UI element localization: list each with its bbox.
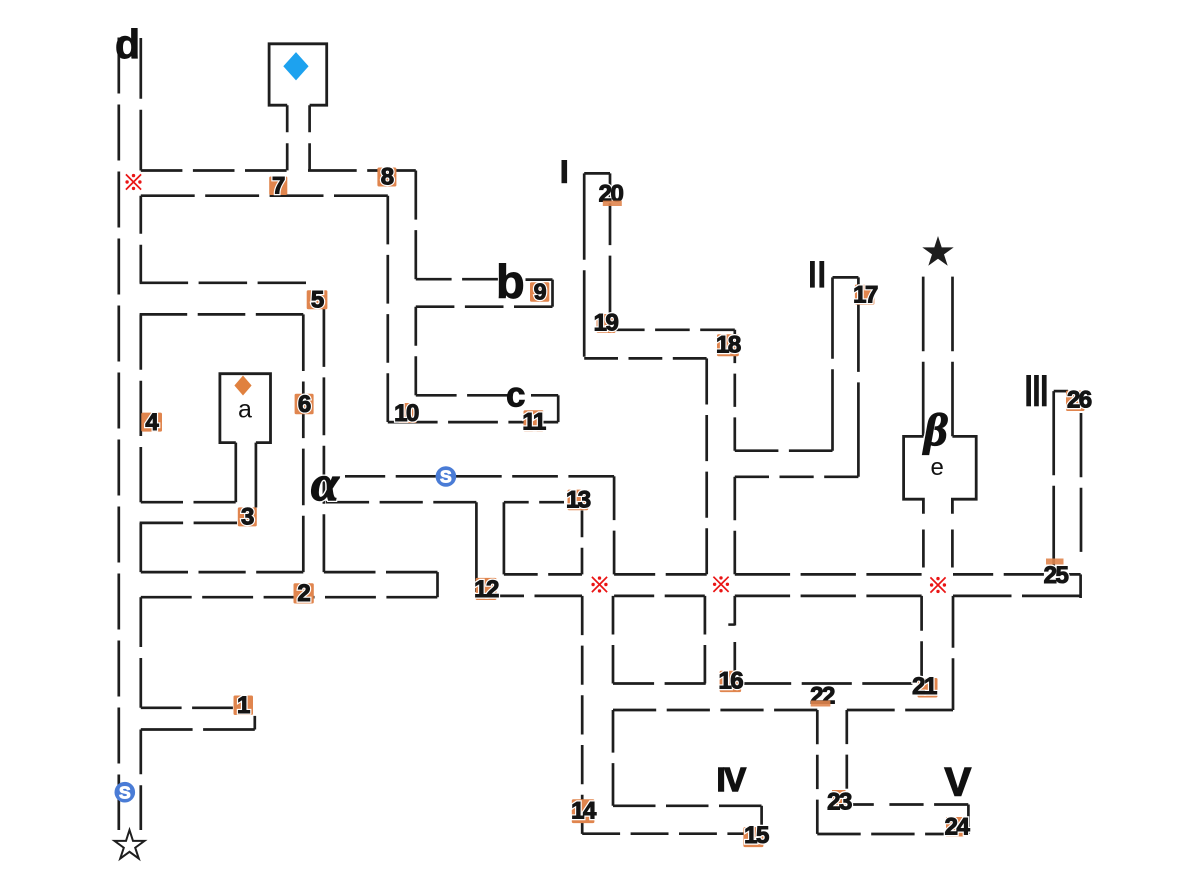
svg-text:5: 5 xyxy=(311,287,324,314)
long corridor east cap xyxy=(1079,574,1082,598)
svg-text:V: V xyxy=(945,761,972,805)
orange diamond item xyxy=(234,376,251,396)
door 24 xyxy=(945,814,971,841)
corridor V east cap xyxy=(967,805,970,835)
svg-text:13: 13 xyxy=(566,487,591,514)
corridor IV east cap xyxy=(760,806,763,834)
svg-text:11: 11 xyxy=(522,409,546,436)
corridor V bottom wall xyxy=(817,833,968,836)
door 4 xyxy=(141,409,162,436)
door 20 xyxy=(599,181,624,208)
room e (beta) xyxy=(904,436,924,513)
row-3 corridor bottom wall xyxy=(140,522,237,525)
row-5 corridor top wall xyxy=(140,281,306,284)
corridor IV bottom wall xyxy=(582,832,765,835)
svg-text:IV: IV xyxy=(717,761,747,798)
corridor II west wall xyxy=(831,277,834,450)
svg-text:8: 8 xyxy=(381,164,394,191)
corridor-1 top wall xyxy=(141,706,233,709)
corridor-6 east wall xyxy=(323,309,326,572)
door 11 xyxy=(522,409,546,436)
label III xyxy=(1026,375,1046,406)
svg-text:1: 1 xyxy=(237,692,250,719)
star corridor east wall xyxy=(951,277,954,437)
corridor-16 top wall xyxy=(613,682,706,685)
svg-text:7: 7 xyxy=(272,173,285,200)
door 21 xyxy=(912,673,937,700)
svg-text:2: 2 xyxy=(297,580,310,607)
door 3 xyxy=(238,504,257,531)
svg-text:23: 23 xyxy=(827,789,852,816)
corridor-6 west wall xyxy=(302,314,305,572)
door 10 xyxy=(394,400,419,427)
row-7 corridor bottom wall xyxy=(141,194,388,197)
svg-text:α: α xyxy=(311,455,340,511)
svg-text:18: 18 xyxy=(716,332,741,359)
corridor-12 west wall xyxy=(475,502,478,592)
row-5 corridor bottom wall xyxy=(140,313,304,316)
svg-text:17: 17 xyxy=(853,282,878,309)
svg-text:b: b xyxy=(496,255,525,308)
blue diamond item xyxy=(283,52,308,80)
svg-text:6: 6 xyxy=(298,391,311,418)
door 17 xyxy=(853,282,878,309)
door 12 xyxy=(474,576,499,603)
corridor b bottom wall xyxy=(416,305,553,308)
secret mark west xyxy=(125,174,141,190)
white star (start) xyxy=(115,830,145,859)
corridor II east wall xyxy=(857,277,860,476)
label II xyxy=(810,261,824,288)
svg-text:9: 9 xyxy=(534,279,546,305)
corridor c bottom wall xyxy=(388,421,558,424)
corridor-1 end wall xyxy=(253,716,256,730)
door 13 xyxy=(566,487,591,514)
corridor III east wall xyxy=(1080,413,1083,552)
star corridor west wall xyxy=(922,277,925,437)
corridor-12 east wall xyxy=(503,502,506,574)
secret mark east xyxy=(930,577,946,593)
svg-text:14: 14 xyxy=(571,798,597,825)
corridor c top wall xyxy=(416,394,508,397)
label alpha xyxy=(311,455,340,511)
label I xyxy=(562,160,568,183)
door 19 xyxy=(594,310,619,337)
corridor V top wall xyxy=(852,803,874,806)
svg-text:26: 26 xyxy=(1067,387,1092,414)
door 2 xyxy=(294,580,314,607)
row-7 corridor top wall xyxy=(141,169,287,172)
door 18 xyxy=(716,332,741,359)
door 26 xyxy=(1066,387,1092,414)
S marker alpha corridor xyxy=(436,466,457,487)
corridor-13 west wall xyxy=(581,511,584,575)
door 1 xyxy=(234,692,254,719)
corridor-18 east wall xyxy=(733,330,736,451)
svg-text:e: e xyxy=(931,454,944,481)
door 14 xyxy=(571,798,597,825)
wall jog xyxy=(728,623,735,626)
room with blue diamond xyxy=(269,44,327,105)
corridor-23 east wall xyxy=(845,710,848,789)
corridor III cap xyxy=(1054,390,1068,393)
door 8 xyxy=(377,164,396,191)
corridor IV top wall xyxy=(613,804,762,807)
corridor-14 east wall xyxy=(612,596,615,684)
door 23 xyxy=(827,789,852,816)
secret mark center-1 xyxy=(591,576,607,592)
row-2 corridor bottom wall xyxy=(141,596,438,599)
corridor c end wall xyxy=(557,395,560,422)
corridor I east wall xyxy=(609,173,612,327)
corridor-14 west wall xyxy=(581,596,584,834)
alpha corridor bottom wall xyxy=(326,501,477,504)
svg-text:d: d xyxy=(115,21,140,67)
corridor-18 lower west wall xyxy=(704,596,707,684)
diamond-room corridor walls xyxy=(286,105,289,170)
svg-text:S: S xyxy=(119,782,131,802)
corridor-1 bottom wall xyxy=(141,728,255,731)
svg-text:S: S xyxy=(440,467,452,487)
corridor b top wall xyxy=(416,278,498,281)
room 9 end wall xyxy=(551,280,554,307)
corridor II cap xyxy=(833,276,859,279)
svg-text:4: 4 xyxy=(145,409,159,436)
outer west wall xyxy=(117,38,120,831)
label beta xyxy=(922,404,948,455)
door 6 xyxy=(295,391,314,418)
wall x416 down from 8 xyxy=(414,171,417,280)
door 22 xyxy=(810,683,835,710)
row-2 corridor top wall xyxy=(141,571,303,574)
svg-text:21: 21 xyxy=(912,673,937,700)
inner west wall xyxy=(139,38,142,171)
svg-text:c: c xyxy=(506,376,525,415)
corridor 19-18 bottom wall xyxy=(584,357,707,360)
alpha corridor top wall xyxy=(345,475,436,478)
svg-text:a: a xyxy=(238,396,252,424)
door 25 xyxy=(1044,559,1069,590)
svg-text:16: 16 xyxy=(718,668,743,695)
corridor 19-18 top wall xyxy=(610,328,735,331)
room a xyxy=(220,374,271,443)
corridor III west wall xyxy=(1052,391,1055,570)
corridor-18 lower east wall xyxy=(733,596,736,626)
II connector bottom wall xyxy=(735,475,859,478)
black star (goal) xyxy=(922,236,953,266)
svg-text:25: 25 xyxy=(1044,562,1069,589)
corridor I cap xyxy=(584,172,610,175)
svg-text:15: 15 xyxy=(744,822,769,849)
wall x388 xyxy=(386,196,389,422)
svg-text:10: 10 xyxy=(394,400,419,427)
corridor-13 east wall xyxy=(613,476,616,574)
room-e lower corridor walls xyxy=(922,530,925,568)
svg-text:19: 19 xyxy=(594,310,619,337)
door 9 xyxy=(530,279,549,305)
svg-text:12: 12 xyxy=(474,576,499,603)
corridor-21 west wall xyxy=(920,596,923,676)
door 5 xyxy=(307,287,328,314)
door 15 xyxy=(743,822,769,849)
svg-text:24: 24 xyxy=(945,814,971,841)
corridor-21 east wall xyxy=(952,596,955,710)
corridor I west wall xyxy=(583,173,586,356)
corridor-23 west wall xyxy=(816,710,819,834)
long corridor bottom wall xyxy=(476,595,582,598)
row-2 east cap xyxy=(436,572,439,597)
door 7 xyxy=(269,173,287,200)
corridor-18 west wall xyxy=(705,358,708,574)
long corridor top wall xyxy=(504,573,582,576)
svg-text:β: β xyxy=(922,404,948,455)
S marker entrance xyxy=(115,782,136,803)
door 16 xyxy=(718,668,743,695)
row-3 corridor top wall xyxy=(141,501,236,504)
corridor-16 bottom wall xyxy=(613,709,817,712)
room-a corridor walls xyxy=(234,443,237,503)
II connector top wall xyxy=(735,449,833,452)
secret mark center-2 xyxy=(713,576,729,592)
svg-text:3: 3 xyxy=(241,504,254,531)
